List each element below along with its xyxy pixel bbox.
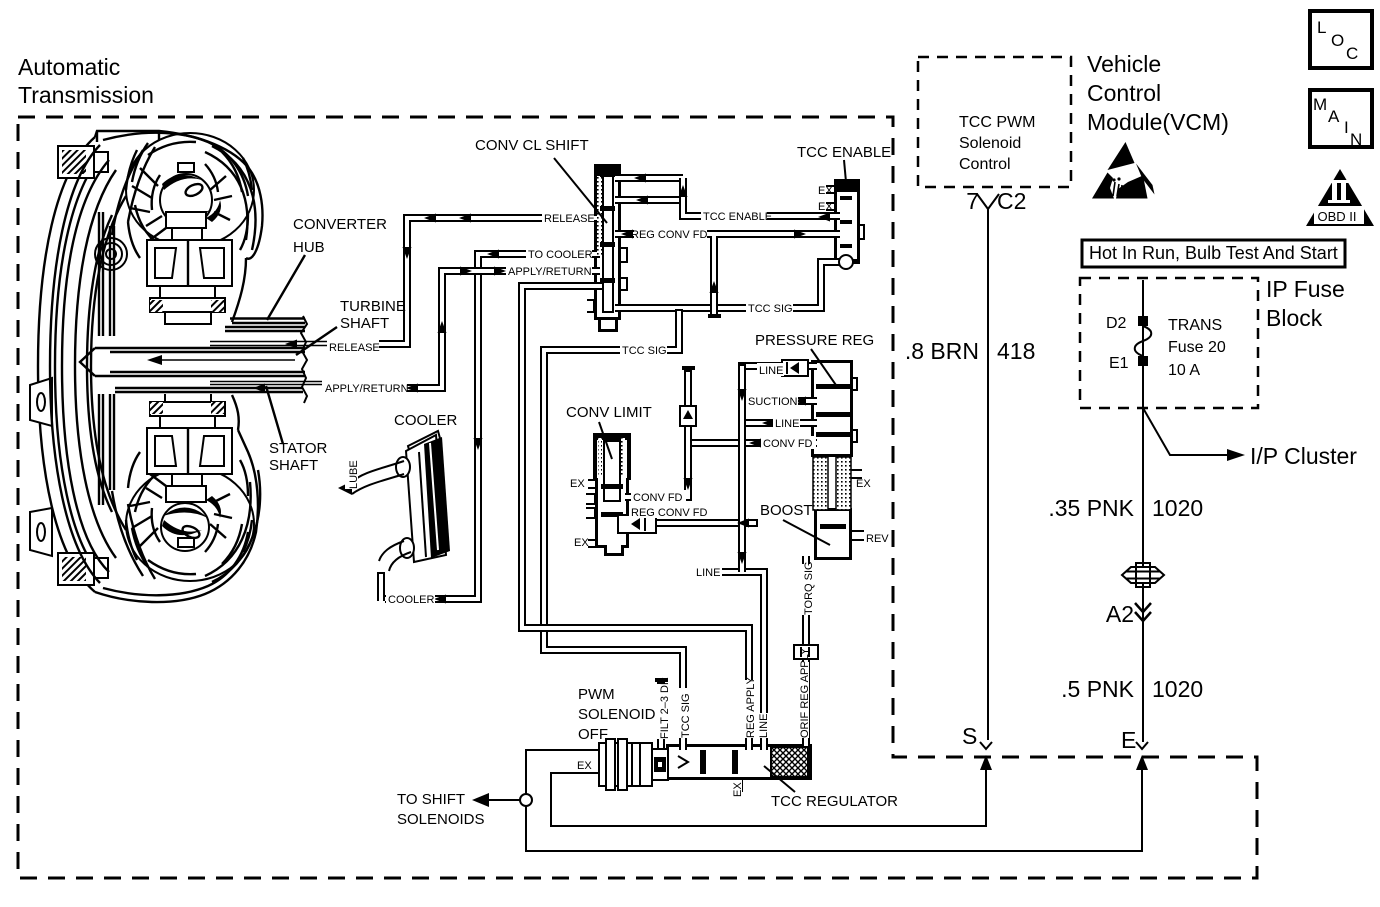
svg-text:TRANS: TRANS <box>1168 317 1222 334</box>
svg-text:Hot In Run, Bulb Test And Star: Hot In Run, Bulb Test And Start <box>1089 243 1338 263</box>
svg-text:EX: EX <box>577 760 592 772</box>
svg-text:PWM: PWM <box>578 686 615 703</box>
svg-text:BOOST: BOOST <box>760 502 813 519</box>
svg-text:I: I <box>1344 118 1349 137</box>
svg-text:CONV FD: CONV FD <box>763 438 813 450</box>
svg-text:REV: REV <box>866 533 889 545</box>
svg-text:LUBE: LUBE <box>348 460 360 489</box>
svg-text:TORQ SIG: TORQ SIG <box>803 561 815 615</box>
svg-text:TCC SIG: TCC SIG <box>748 303 793 315</box>
svg-text:SHAFT: SHAFT <box>269 457 318 474</box>
svg-text:S: S <box>962 723 977 749</box>
svg-text:Control: Control <box>1087 80 1161 106</box>
svg-text:COOLER: COOLER <box>388 594 435 606</box>
svg-text:C: C <box>1346 44 1358 63</box>
svg-text:TCC SIG: TCC SIG <box>622 345 667 357</box>
svg-text:ORIF REG APPLY: ORIF REG APPLY <box>799 647 811 738</box>
svg-text:7: 7 <box>966 188 979 214</box>
svg-text:SOLENOID: SOLENOID <box>578 706 656 723</box>
svg-text:Module(VCM): Module(VCM) <box>1087 109 1229 135</box>
svg-text:TCC ENABLE: TCC ENABLE <box>703 211 772 223</box>
svg-text:N: N <box>1350 130 1362 149</box>
svg-text:EX: EX <box>570 478 585 490</box>
svg-text:EX: EX <box>856 478 871 490</box>
svg-text:REG APPLY: REG APPLY <box>745 676 757 738</box>
svg-text:TCC PWM: TCC PWM <box>959 114 1035 131</box>
svg-text:418: 418 <box>997 338 1035 364</box>
svg-text:IP Fuse: IP Fuse <box>1266 276 1345 302</box>
svg-text:FILT 2–3 DR: FILT 2–3 DR <box>659 677 671 739</box>
svg-text:TURBINE: TURBINE <box>340 298 406 315</box>
svg-text:STATOR: STATOR <box>269 440 328 457</box>
svg-text:CONV FD: CONV FD <box>633 492 683 504</box>
svg-text:I/P Cluster: I/P Cluster <box>1250 443 1357 469</box>
svg-text:Automatic: Automatic <box>18 54 120 80</box>
svg-text:E: E <box>1121 727 1136 753</box>
svg-text:TCC REGULATOR: TCC REGULATOR <box>771 793 898 810</box>
svg-text:Transmission: Transmission <box>18 82 154 108</box>
svg-text:Control: Control <box>959 156 1011 173</box>
svg-text:SUCTION: SUCTION <box>748 396 798 408</box>
svg-text:CONV LIMIT: CONV LIMIT <box>566 404 652 421</box>
svg-text:1020: 1020 <box>1152 495 1203 521</box>
svg-text:Vehicle: Vehicle <box>1087 51 1161 77</box>
svg-text:TCC SIG: TCC SIG <box>680 693 692 738</box>
svg-text:A: A <box>1328 107 1340 126</box>
svg-text:CONV CL SHIFT: CONV CL SHIFT <box>475 137 589 154</box>
svg-text:TO SHIFT: TO SHIFT <box>397 791 465 808</box>
svg-text:OFF: OFF <box>578 726 608 743</box>
svg-text:A2: A2 <box>1106 601 1134 627</box>
svg-text:PRESSURE REG: PRESSURE REG <box>755 332 874 349</box>
svg-text:SOLENOIDS: SOLENOIDS <box>397 811 485 828</box>
svg-text:L: L <box>1317 18 1326 37</box>
svg-text:APPLY/RETURN: APPLY/RETURN <box>508 266 592 278</box>
svg-text:OBD II: OBD II <box>1317 209 1356 224</box>
svg-text:M: M <box>1313 95 1327 114</box>
svg-text:LINE: LINE <box>759 365 783 377</box>
svg-text:EX: EX <box>574 537 589 549</box>
svg-text:.5 PNK: .5 PNK <box>1061 676 1135 702</box>
svg-text:SHAFT: SHAFT <box>340 315 389 332</box>
svg-text:CONVERTER: CONVERTER <box>293 216 387 233</box>
svg-text:O: O <box>1331 31 1344 50</box>
svg-text:HUB: HUB <box>293 239 325 256</box>
svg-text:Block: Block <box>1266 305 1323 331</box>
svg-text:1020: 1020 <box>1152 676 1203 702</box>
svg-text:REG CONV FD: REG CONV FD <box>631 229 707 241</box>
svg-text:EX: EX <box>818 185 833 197</box>
svg-text:Solenoid: Solenoid <box>959 135 1021 152</box>
svg-text:C2: C2 <box>997 188 1026 214</box>
svg-text:D2: D2 <box>1106 315 1127 332</box>
svg-text:E1: E1 <box>1109 355 1129 372</box>
svg-text:.35 PNK: .35 PNK <box>1048 495 1134 521</box>
svg-text:EX: EX <box>818 201 833 213</box>
svg-text:TCC ENABLE: TCC ENABLE <box>797 144 891 161</box>
svg-text:COOLER: COOLER <box>394 412 458 429</box>
svg-text:Fuse 20: Fuse 20 <box>1168 339 1226 356</box>
svg-text:LINE: LINE <box>696 567 720 579</box>
svg-text:TO COOLER: TO COOLER <box>528 249 593 261</box>
svg-text:RELEASE: RELEASE <box>329 342 380 354</box>
svg-text:RELEASE: RELEASE <box>544 213 595 225</box>
svg-text:APPLY/RETURN: APPLY/RETURN <box>325 383 409 395</box>
svg-text:10 A: 10 A <box>1168 362 1200 379</box>
svg-text:.8 BRN: .8 BRN <box>905 338 979 364</box>
svg-text:LINE: LINE <box>775 418 799 430</box>
svg-text:EX: EX <box>732 782 744 797</box>
svg-text:LINE: LINE <box>758 714 770 738</box>
svg-text:REG CONV FD: REG CONV FD <box>631 507 707 519</box>
